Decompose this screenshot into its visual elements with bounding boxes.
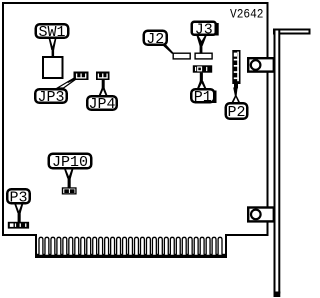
JP3 leader <box>57 78 75 88</box>
connector J2 footprint <box>173 53 190 59</box>
bracket <box>274 30 310 298</box>
JP10 leader <box>64 169 74 188</box>
label J2 <box>144 31 167 48</box>
label SW1 <box>36 24 69 41</box>
svg-text:SW1: SW1 <box>38 24 65 41</box>
P2 leader <box>231 84 240 103</box>
jumper JP4 <box>96 72 110 81</box>
card outline <box>3 3 268 256</box>
switch SW1 <box>43 57 63 78</box>
P1 leader <box>197 73 207 89</box>
text V2642 <box>230 7 264 21</box>
jumper JP10 <box>62 187 77 194</box>
J2 leader <box>162 44 174 54</box>
svg-text:JP4: JP4 <box>88 96 115 113</box>
bracket screw tab bottom <box>248 208 274 222</box>
jumper P3 <box>8 222 29 229</box>
svg-text:P3: P3 <box>9 189 27 206</box>
svg-text:J2: J2 <box>146 31 164 48</box>
J3 leader <box>196 35 207 53</box>
P3 leader <box>14 204 23 223</box>
JP4 leader <box>99 80 108 96</box>
label JP4 <box>87 96 117 113</box>
edge connector <box>35 237 227 258</box>
jumper JP3 <box>74 72 89 81</box>
svg-text:JP10: JP10 <box>52 154 88 171</box>
SW1 leader <box>49 38 57 57</box>
svg-text:J3: J3 <box>195 21 213 38</box>
label P3 <box>7 189 30 206</box>
svg-text:V2642: V2642 <box>230 7 264 21</box>
svg-text:P1: P1 <box>194 89 212 106</box>
svg-text:JP3: JP3 <box>37 89 64 106</box>
label JP10 <box>49 154 92 171</box>
jumper P1 <box>193 65 212 72</box>
label P2 <box>226 103 248 121</box>
label P1 <box>191 89 216 106</box>
connector J3 footprint <box>195 53 212 59</box>
bracket screw tab top <box>248 58 274 71</box>
connector P2 <box>232 50 240 84</box>
label JP3 <box>35 89 67 106</box>
svg-text:P2: P2 <box>227 104 245 121</box>
label J3 <box>192 21 219 38</box>
